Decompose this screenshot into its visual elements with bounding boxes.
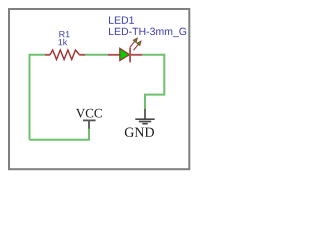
border frame bbox=[9, 9, 189, 169]
ground GND symbol bbox=[135, 109, 154, 124]
LED arrow 1 bbox=[130, 38, 137, 47]
net label VCC bbox=[76, 109, 102, 118]
value LED-TH-3mm_G bbox=[109, 28, 186, 37]
LED anode lead bbox=[108, 54, 120, 56]
resistor R1 bbox=[45, 54, 50, 56]
label R1 bbox=[59, 31, 69, 37]
wire LED to GND bbox=[142, 55, 164, 109]
LED arrow 2 bbox=[134, 41, 142, 50]
LED triangle bbox=[120, 48, 130, 60]
value 1k bbox=[58, 39, 67, 46]
label LED1 bbox=[109, 16, 134, 23]
LED cathode lead bbox=[130, 54, 142, 56]
wire left vertical + top run to resistor bbox=[30, 55, 46, 140]
net label GND bbox=[125, 128, 154, 137]
VCC power symbol bbox=[83, 120, 96, 128]
LED cathode bar bbox=[129, 48, 131, 63]
wire bottom run to VCC bbox=[30, 128, 90, 139]
wire resistor to LED bbox=[85, 54, 108, 56]
